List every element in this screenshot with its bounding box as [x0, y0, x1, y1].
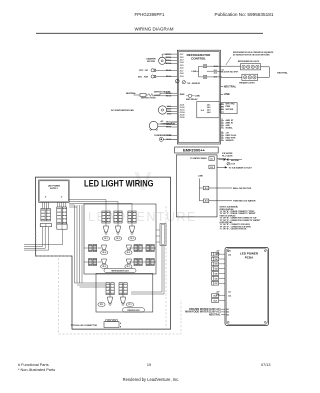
svg-text:RL-2: RL-2: [116, 238, 119, 240]
svg-text:REFRIGERATOR LIGHTS: REFRIGERATOR LIGHTS: [238, 60, 260, 63]
svg-text:J2: J2: [221, 139, 223, 141]
svg-text:FPHG2399PF1: FPHG2399PF1: [134, 12, 165, 17]
svg-text:BELLOW MOTOR: BELLOW MOTOR: [233, 188, 252, 190]
svg-text:SECOND: SECOND: [226, 109, 234, 111]
svg-text:J2: J2: [221, 119, 223, 121]
svg-text:NEUTRAL: NEUTRAL: [126, 92, 137, 95]
svg-text:LINE: LINE: [198, 175, 203, 177]
svg-text:EMF2000++: EMF2000++: [183, 149, 205, 153]
svg-text:J1-6: J1-6: [180, 94, 184, 96]
svg-text:TWISTED ICE WATER: TWISTED ICE WATER: [233, 200, 256, 203]
svg-text:DC EVAPORATOR FAN: DC EVAPORATOR FAN: [111, 109, 134, 112]
svg-text:RL-3: RL-3: [130, 238, 133, 240]
svg-text:AT HARVEST MOTOR ON DOOR SWITC: AT HARVEST MOTOR ON DOOR SWITCHES: [233, 54, 270, 57]
svg-text:CR-DOOR SW, SPST: CR-DOOR SW, SPST: [221, 71, 239, 73]
svg-text:DEFROST TSTAT: DEFROST TSTAT: [141, 96, 157, 99]
svg-text:WIRING DIAGRAM: WIRING DIAGRAM: [135, 27, 174, 32]
svg-text:NEUTRAL: NEUTRAL: [224, 84, 237, 88]
svg-text:MAX RELAY: MAX RELAY: [186, 98, 198, 101]
svg-text:LINE: LINE: [192, 71, 197, 73]
svg-text:RL-1: RL-1: [104, 238, 107, 240]
svg-text:J1-6: J1-6: [180, 68, 184, 70]
svg-text:CN2: CN2: [214, 259, 217, 261]
svg-text:COMPRESSOR: COMPRESSOR: [161, 123, 176, 125]
svg-text:J2: J2: [221, 137, 223, 139]
svg-text:CN5: CN5: [214, 273, 217, 275]
svg-text:J6-2: J6-2: [205, 201, 208, 203]
svg-text:CONDENSER FAN: CONDENSER FAN: [154, 134, 172, 137]
svg-text:TH1 - SENSOR: TH1 - SENSOR: [187, 83, 201, 85]
svg-text:J1-3: J1-3: [180, 60, 184, 62]
svg-text:SIGNAL: SIGNAL: [226, 127, 234, 130]
svg-text:TO WATER TANKS: TO WATER TANKS: [190, 157, 207, 160]
svg-text:NTC - FZR: NTC - FZR: [138, 76, 149, 78]
svg-text:FREEZER LEDS: FREEZER LEDS: [127, 310, 139, 312]
svg-text:J1-16: J1-16: [180, 117, 185, 119]
svg-text:07/13: 07/13: [261, 363, 271, 367]
svg-text:MOTOR: MOTOR: [147, 61, 155, 63]
svg-text:RL-6: RL-6: [103, 266, 106, 268]
svg-text:LINE: LINE: [195, 96, 200, 98]
svg-text:J1-1: J1-1: [180, 54, 184, 56]
svg-text:TYPICAL LED CONNECTOR: TYPICAL LED CONNECTOR: [71, 324, 98, 327]
svg-text:J2-10: J2-10: [213, 66, 218, 68]
svg-text:CN7: CN7: [214, 283, 217, 285]
svg-text:J3-1: J3-1: [228, 292, 231, 294]
svg-text:J6-1: J6-1: [205, 188, 208, 190]
svg-text:J1-5: J1-5: [180, 65, 184, 67]
svg-text:J2-2: J2-2: [213, 73, 217, 75]
svg-text:J1: J1: [61, 197, 63, 199]
svg-text:Publication No: 5995635181: Publication No: 5995635181: [215, 12, 274, 17]
svg-text:J1-8: J1-8: [180, 73, 184, 75]
svg-text:TO ICE MAKER OUTLET: TO ICE MAKER OUTLET: [229, 167, 253, 170]
svg-text:FZ-1: FZ-1: [128, 304, 131, 306]
svg-text:# Functional Parts: # Functional Parts: [18, 363, 49, 367]
svg-text:NEUTRAL: NEUTRAL: [231, 159, 239, 162]
svg-text:NEUTRAL: NEUTRAL: [277, 72, 288, 75]
svg-text:PCBA: PCBA: [245, 256, 254, 260]
svg-text:Rendered by LeadVenture, Inc.: Rendered by LeadVenture, Inc.: [123, 377, 180, 382]
svg-text:DEFROST HEATER: DEFROST HEATER: [154, 90, 171, 93]
svg-text:J1-7: J1-7: [180, 70, 184, 72]
svg-text:CN-8: CN-8: [213, 296, 217, 298]
svg-text:CN-9: CN-9: [213, 300, 217, 302]
svg-text:CN3: CN3: [214, 264, 217, 266]
svg-text:J2: J2: [221, 134, 223, 136]
svg-text:NEUTRAL: NEUTRAL: [209, 313, 221, 316]
svg-text:J3-2: J3-2: [210, 167, 213, 169]
svg-text:J2: J2: [45, 197, 47, 199]
svg-text:J2: J2: [221, 122, 223, 124]
svg-text:J2: J2: [221, 127, 223, 129]
svg-text:SENSOR: SENSOR: [226, 140, 235, 142]
svg-text:FD-1: FD-1: [100, 304, 103, 306]
svg-text:"C" OR "E" - OUTLETS FOR ICE: "C" OR "E" - OUTLETS FOR ICE: [220, 229, 247, 231]
svg-text:J1-2: J1-2: [180, 57, 184, 59]
svg-text:NTC - RF: NTC - RF: [139, 70, 149, 72]
svg-text:J2: J2: [221, 124, 223, 126]
svg-text:FREEZER LIGHTS: FREEZER LIGHTS: [239, 82, 255, 84]
svg-text:RL-5: RL-5: [127, 252, 130, 254]
svg-text:J3-1: J3-1: [210, 158, 213, 160]
svg-text:LED LIGHT WIRING: LED LIGHT WIRING: [84, 179, 154, 189]
svg-text:CONTROL: CONTROL: [191, 56, 206, 60]
svg-text:SUPPLY: SUPPLY: [50, 188, 58, 190]
svg-text:LINE: LINE: [224, 92, 230, 96]
svg-text:J1-9: J1-9: [180, 76, 184, 78]
svg-text:J2-1: J2-1: [228, 251, 231, 253]
svg-text:* Non-Illustrated Parts: * Non-Illustrated Parts: [18, 368, 55, 372]
svg-text:RL-7: RL-7: [127, 266, 130, 268]
svg-text:FILL VALVE: FILL VALVE: [222, 155, 233, 158]
svg-text:19: 19: [147, 363, 151, 367]
svg-text:BK-14: BK-14: [166, 126, 171, 129]
svg-text:CN6: CN6: [214, 278, 217, 280]
svg-text:J2: J2: [221, 132, 223, 134]
svg-text:CN1: CN1: [214, 254, 217, 256]
